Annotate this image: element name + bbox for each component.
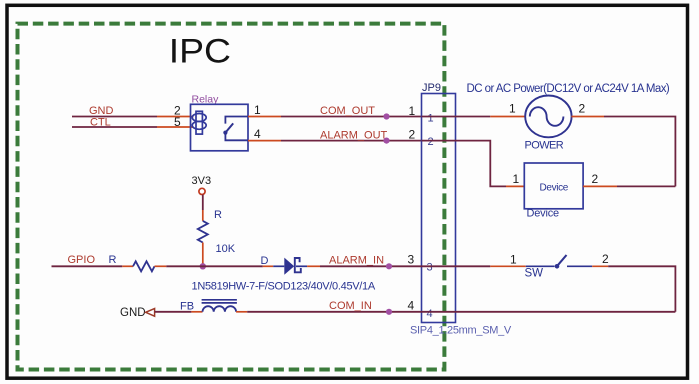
wire FB right stub: [236, 311, 247, 313]
wire diode right stub orange: [307, 265, 320, 267]
wire row4 through JP9 to right riser: [422, 311, 676, 313]
switch SW arm: [556, 255, 567, 267]
svg-text:4: 4: [427, 308, 433, 320]
wire SW pin1 stub: [490, 265, 526, 267]
diode D cathode bar with schottky hooks: [295, 258, 301, 272]
ferrite bead FB arcs: [203, 306, 237, 312]
svg-text:2: 2: [428, 136, 434, 148]
wire power to right corner: [604, 117, 675, 187]
svg-text:3: 3: [427, 262, 433, 274]
svg-text:1: 1: [510, 253, 517, 267]
diode D triangle: [284, 258, 294, 275]
wire row3 through JP9: [422, 265, 491, 267]
svg-text:1: 1: [513, 172, 520, 186]
wire ALARM_OUT net: [281, 140, 422, 142]
wire relay pin1 stub: [248, 116, 281, 118]
switch SW left lead: [526, 265, 555, 267]
svg-text:1N5819HW-7-F/SOD123/40V/0.45V/: 1N5819HW-7-F/SOD123/40V/0.45V/1A: [192, 281, 376, 293]
junction dot ALARM_IN: [386, 263, 392, 269]
svg-text:ALARM_IN: ALARM_IN: [329, 255, 384, 267]
wire GPIO to diode: [166, 265, 262, 267]
wire relay pin4 stub: [248, 140, 281, 142]
power sine wave: [530, 107, 564, 126]
wire 3V3 down: [202, 195, 204, 210]
power source circle: [525, 96, 571, 138]
junction dot COM_OUT: [383, 113, 389, 119]
power port GND arrow: [146, 309, 155, 317]
device box: [524, 163, 583, 209]
relay coil loop 1: [192, 114, 206, 122]
svg-text:ALARM_OUT: ALARM_OUT: [320, 130, 388, 142]
wire row1 through JP9: [422, 116, 491, 118]
svg-text:GND: GND: [120, 307, 146, 319]
junction dot ALARM_OUT: [383, 138, 389, 144]
junction dot COM_IN: [386, 309, 392, 315]
svg-text:Device: Device: [527, 208, 560, 220]
svg-text:SIP4_1.25mm_SM_V: SIP4_1.25mm_SM_V: [410, 325, 512, 337]
wire device to right riser: [617, 185, 675, 187]
wire device pin2 stub: [583, 185, 617, 187]
svg-text:COM_OUT: COM_OUT: [320, 105, 375, 117]
relay switch contact rail top: [225, 117, 248, 124]
wire CTL pin stub: [157, 126, 194, 128]
relay box: [191, 104, 249, 151]
svg-text:10K: 10K: [216, 243, 236, 255]
wire resistor bottom stub: [202, 243, 204, 267]
svg-text:3V3: 3V3: [192, 175, 212, 187]
wire device pin1 stub: [506, 185, 524, 187]
relay coil loop 2: [192, 121, 206, 129]
power port 3V3 ring: [199, 188, 205, 194]
junction dot GPIO/R: [200, 263, 206, 269]
wire GND pin stub: [157, 116, 194, 118]
wire resistor top stub: [202, 210, 204, 221]
wire power pin1 stub: [490, 116, 525, 118]
wire row2 through JP9 to corner: [422, 141, 507, 187]
svg-text:2: 2: [602, 252, 609, 266]
svg-text:1: 1: [428, 113, 434, 125]
wire SW pin2 stub: [592, 265, 608, 267]
svg-text:1: 1: [509, 102, 516, 116]
svg-text:JP9: JP9: [422, 82, 441, 94]
relay switch rail bottom: [225, 133, 248, 141]
svg-text:4: 4: [254, 127, 261, 141]
wire FB left stub: [191, 311, 202, 313]
ferrite bead FB core lines: [202, 300, 237, 303]
wire GND net: [72, 116, 157, 118]
relay switch arm: [225, 123, 233, 132]
svg-text:R: R: [214, 209, 222, 221]
resistor R vertical zigzag: [198, 221, 208, 243]
relay coil core: [196, 111, 202, 134]
svg-text:COM_IN: COM_IN: [329, 300, 372, 312]
svg-text:R: R: [109, 254, 117, 266]
svg-text:5: 5: [174, 115, 181, 129]
wire diode left lead blue: [273, 265, 284, 267]
resistor R horizontal zigzag: [133, 261, 154, 271]
wire power pin2 stub: [571, 116, 604, 118]
wire R left stub: [122, 265, 133, 267]
wire GND to FB: [155, 311, 192, 313]
wire ALARM_IN net: [320, 265, 422, 267]
wire CTL net: [72, 126, 157, 128]
wire diode right lead blue: [296, 265, 307, 267]
svg-text:D: D: [261, 255, 269, 267]
svg-text:GND: GND: [89, 105, 114, 117]
IPC dashed boundary: [18, 24, 445, 370]
svg-text:Device: Device: [540, 183, 569, 194]
svg-text:CTL: CTL: [90, 117, 111, 129]
svg-text:POWER: POWER: [525, 140, 564, 152]
svg-text:SW: SW: [525, 268, 544, 280]
svg-text:2: 2: [592, 172, 599, 186]
wire SW to right riser down: [608, 266, 675, 312]
svg-text:2: 2: [579, 102, 586, 116]
wire diode left stub orange: [263, 265, 273, 267]
svg-text:IPC: IPC: [169, 32, 231, 70]
relay switch pivot dot: [223, 131, 227, 135]
wire COM_IN net: [247, 311, 421, 313]
svg-text:GPIO: GPIO: [68, 254, 96, 266]
wire COM_OUT net: [281, 116, 422, 118]
svg-text:4: 4: [408, 299, 415, 313]
wire GPIO net: [52, 265, 123, 267]
svg-text:1: 1: [409, 104, 416, 118]
svg-text:2: 2: [409, 128, 416, 142]
switch SW pivot dot: [555, 264, 560, 269]
wire R right stub: [155, 265, 167, 267]
svg-text:3: 3: [408, 253, 415, 267]
svg-text:DC or AC Power(DC12V or AC24V: DC or AC Power(DC12V or AC24V 1A Max): [467, 83, 670, 95]
switch SW right lead: [567, 265, 592, 267]
connector JP9 box: [422, 94, 456, 323]
svg-text:1: 1: [254, 103, 261, 117]
svg-text:FB: FB: [180, 301, 194, 313]
